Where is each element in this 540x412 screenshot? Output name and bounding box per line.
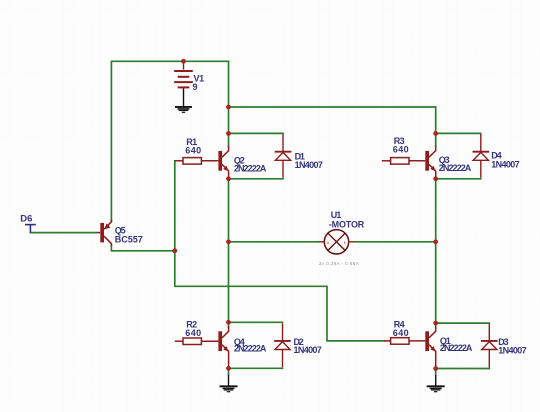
svg-text:U1: U1 bbox=[331, 210, 342, 220]
svg-text:2N2222A: 2N2222A bbox=[234, 343, 267, 353]
svg-text:640: 640 bbox=[185, 146, 201, 156]
svg-text:-MOTOR: -MOTOR bbox=[329, 220, 365, 230]
svg-text:3v 0.28A - 0.69A: 3v 0.28A - 0.69A bbox=[319, 261, 360, 266]
svg-text:2N2222A: 2N2222A bbox=[439, 163, 472, 173]
svg-text:640: 640 bbox=[185, 328, 201, 338]
svg-text:1N4007: 1N4007 bbox=[295, 160, 323, 170]
svg-text:1N4007: 1N4007 bbox=[491, 159, 519, 169]
svg-text:D6: D6 bbox=[20, 214, 32, 225]
svg-text:640: 640 bbox=[393, 328, 409, 338]
svg-text:1N4007: 1N4007 bbox=[294, 345, 322, 355]
svg-text:9: 9 bbox=[193, 82, 198, 92]
svg-text:2N2222A: 2N2222A bbox=[234, 164, 267, 174]
svg-text:2N2222A: 2N2222A bbox=[440, 343, 473, 353]
svg-text:640: 640 bbox=[393, 145, 409, 155]
svg-text:BC557: BC557 bbox=[115, 235, 143, 245]
svg-text:1N4007: 1N4007 bbox=[498, 346, 526, 356]
